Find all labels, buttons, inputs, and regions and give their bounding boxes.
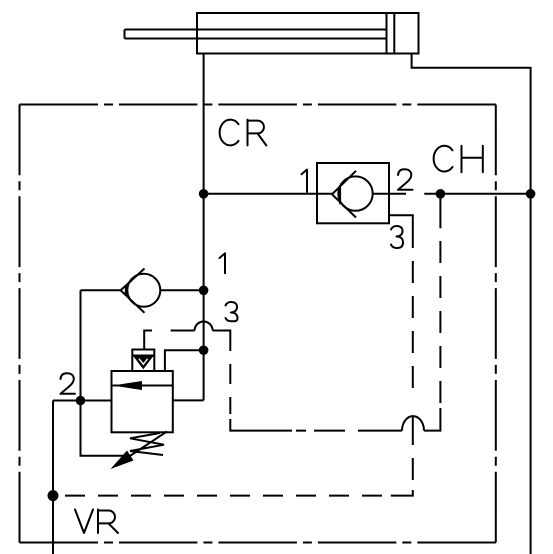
cylinder body	[197, 13, 419, 54]
relief valve adjustment arrow	[120, 431, 167, 462]
drain line dashes (bottom, to node VR)	[65, 495, 382, 497]
node CR junction	[199, 189, 209, 199]
label 2 (VR port)	[61, 373, 76, 394]
label CH	[434, 146, 483, 173]
node pilot junction	[199, 345, 209, 355]
label 3 (CH port)	[391, 226, 403, 248]
check valve V1 seat	[121, 269, 145, 313]
cylinder piston	[387, 13, 395, 54]
wire node CH to right (through boundary)	[424, 193, 530, 195]
pilot line corner bottom-left	[230, 419, 292, 431]
label 1 (VR port)	[220, 253, 226, 273]
node at right line	[526, 189, 536, 199]
relief valve VR body	[112, 371, 173, 432]
pilot line dashes (right leg up to node)	[439, 198, 441, 403]
pilot line corner bottom-right	[424, 408, 440, 431]
wire CR node to check valve CH port 1	[204, 193, 333, 195]
pilot line (dashed) stub at pilot cap	[144, 331, 152, 350]
drain line corner	[391, 490, 413, 496]
wire VR left port	[53, 400, 112, 402]
pilot line corner	[213, 331, 231, 352]
label 3 (VR port)	[226, 302, 238, 321]
node port 2 junction	[76, 396, 86, 406]
check valve CH seat	[332, 171, 356, 218]
cylinder rod	[125, 30, 387, 39]
drain line dashes from CH port 3 down	[412, 261, 414, 480]
pilot line dash	[171, 330, 195, 332]
node on pilot line	[436, 189, 446, 199]
label 2 (CH port)	[398, 169, 413, 190]
wire check valve V1 right to node 1	[160, 289, 203, 291]
relief valve spring	[130, 433, 164, 455]
relief valve flow line and arrow	[112, 385, 173, 387]
pilot line dashes (left leg down)	[229, 364, 231, 414]
check valve CH enclosure box	[317, 163, 389, 223]
wire VR right port	[173, 399, 204, 401]
label VR	[75, 510, 118, 534]
wire from cylinder rod-side port down to node CR	[203, 54, 205, 401]
enclosure boundary (dash-dot)	[20, 104, 496, 106]
pilot cap of relief valve	[132, 350, 154, 372]
wire from cylinder cap-side port to right side	[412, 54, 531, 554]
pilot line hop over node CR riser	[195, 322, 213, 331]
wire check valve V1 left branch	[81, 290, 129, 455]
pilot line dashes (bottom)	[296, 430, 402, 432]
node port 1 junction	[199, 286, 209, 296]
check valve CH ball	[338, 176, 372, 210]
label CR	[220, 120, 267, 146]
wire CH port 3	[389, 215, 413, 248]
wire VR port 2 to tank line	[52, 401, 54, 554]
wire pilot junction to relief valve body	[165, 350, 204, 371]
check valve V1 ball	[127, 274, 160, 307]
label 1 (CH port)	[302, 170, 308, 193]
wire CH port 2 stub	[373, 193, 406, 195]
node drain junction	[48, 490, 59, 501]
pilot line hop over drain line	[402, 416, 424, 431]
